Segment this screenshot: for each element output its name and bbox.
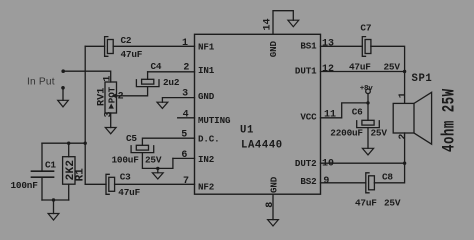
svg-text:7: 7 (183, 176, 189, 187)
ground pin8 (268, 220, 279, 226)
svg-text:47uF: 47uF (121, 49, 143, 60)
capacitor C1 (32, 143, 54, 200)
svg-text:2: 2 (183, 63, 189, 74)
ground pin14 (288, 20, 299, 27)
junction C5 gnd (156, 167, 159, 170)
wire pin13 BS1 (321, 45, 363, 47)
wire pin2 IN1 (148, 71, 195, 73)
node DUT2 rail (403, 162, 406, 165)
ground C6 (362, 148, 373, 155)
capacitor C6 (357, 120, 380, 127)
node bottom gnd (52, 198, 55, 201)
wire pin1 NF1 row (85, 45, 104, 47)
svg-text:+8v: +8v (360, 85, 374, 93)
svg-text:R1: R1 (74, 168, 86, 182)
svg-text:25V: 25V (145, 154, 162, 165)
svg-text:2: 2 (118, 91, 124, 102)
svg-text:47uF: 47uF (355, 198, 377, 209)
svg-text:VCC: VCC (300, 112, 317, 123)
svg-text:9: 9 (323, 176, 329, 187)
svg-text:POT: POT (106, 86, 117, 103)
svg-text:SP1: SP1 (412, 73, 433, 85)
svg-text:5: 5 (181, 130, 187, 141)
node input terminal (61, 69, 65, 73)
wire pin12 DUT1 (321, 71, 405, 73)
svg-text:NF2: NF2 (198, 182, 214, 193)
wire pin3 GND (162, 98, 194, 103)
capacitor C5 (131, 145, 154, 152)
wire C6 to ground (367, 128, 369, 149)
resistor R1 (63, 143, 75, 200)
svg-text:47uF: 47uF (118, 187, 140, 198)
svg-text:2: 2 (398, 134, 409, 140)
resistor RV1 potentiometer (105, 82, 117, 113)
svg-text:LA4440: LA4440 (241, 139, 283, 151)
svg-text:2u2: 2u2 (163, 77, 180, 88)
ground input (58, 100, 69, 107)
ground C1 R1 (48, 214, 59, 221)
capacitor C3 (106, 174, 115, 194)
svg-text:GND: GND (268, 41, 279, 58)
wire main NF vertical (84, 46, 86, 184)
svg-text:12: 12 (322, 64, 334, 75)
svg-text:U1: U1 (240, 124, 254, 136)
svg-text:2200uF: 2200uF (330, 128, 363, 139)
svg-text:11: 11 (324, 110, 336, 121)
svg-text:47uF: 47uF (349, 61, 371, 72)
svg-text:IN1: IN1 (198, 65, 215, 76)
svg-text:8: 8 (265, 202, 276, 208)
svg-text:C3: C3 (120, 171, 131, 182)
node NF vertical (84, 142, 87, 145)
svg-text:25V: 25V (384, 198, 401, 209)
svg-text:In Put: In Put (27, 77, 55, 88)
node +8v supply terminal (366, 89, 371, 94)
capacitor C8 (366, 173, 375, 193)
wire gnd stub (157, 168, 159, 172)
wire RV1 pin3 to ground (110, 113, 112, 128)
wire C1 R1 bottom (42, 199, 69, 201)
wire C1 R1 top node (42, 142, 85, 144)
wire C4 to wiper (117, 87, 148, 96)
ground RV1 (105, 128, 116, 134)
svg-text:C8: C8 (382, 172, 393, 183)
wire C5 to ground/pin6 net (142, 153, 173, 169)
svg-text:25V: 25V (371, 128, 388, 139)
node DUT1 rail (403, 70, 406, 73)
svg-text:3: 3 (182, 89, 188, 100)
svg-text:100nF: 100nF (11, 180, 39, 191)
svg-text:C2: C2 (121, 35, 132, 46)
svg-text:C5: C5 (126, 133, 137, 144)
capacitor C7 (362, 37, 371, 57)
node input ground terminal (61, 86, 65, 90)
op-amp U1 LA4440 IC body (195, 34, 321, 194)
wire pin6 IN2 (173, 157, 195, 159)
svg-text:C4: C4 (151, 61, 162, 72)
wire SP1 bottom lead (404, 133, 406, 163)
capacitor C4 (136, 79, 159, 86)
svg-text:D.C.: D.C. (198, 133, 220, 144)
wire pin9 BS2 (321, 182, 366, 184)
svg-text:C6: C6 (352, 107, 363, 118)
svg-text:IN2: IN2 (198, 154, 214, 165)
ground pin3 (157, 102, 168, 108)
svg-text:25V: 25V (384, 61, 401, 72)
wire pin7 NF2 left (85, 183, 106, 185)
wire pin14 GND top (273, 11, 293, 35)
svg-text:6: 6 (181, 150, 187, 161)
wire bottom gnd stub (53, 200, 55, 214)
svg-text:4ohm 25W: 4ohm 25W (439, 88, 460, 152)
svg-text:1: 1 (182, 38, 188, 49)
svg-text:BS1: BS1 (300, 41, 317, 52)
svg-text:1: 1 (103, 76, 114, 82)
wire C2 to pin1 (113, 45, 194, 47)
svg-text:13: 13 (322, 38, 334, 49)
svg-text:1: 1 (398, 92, 409, 98)
svg-text:DUT2: DUT2 (295, 158, 317, 169)
svg-text:C7: C7 (360, 23, 371, 34)
wire input gnd stub (62, 89, 64, 100)
wire pin2 down to C4 (147, 72, 149, 80)
wire pin11 VCC (321, 103, 369, 118)
node R1 top (67, 142, 70, 145)
svg-text:14: 14 (263, 18, 274, 30)
wire pin10 DUT2 (321, 162, 405, 164)
svg-text:DUT1: DUT1 (295, 66, 317, 77)
node VCC supply (366, 101, 369, 104)
svg-text:BS2: BS2 (300, 176, 316, 187)
wire pin5 D.C. (142, 138, 194, 145)
svg-text:100uF: 100uF (112, 154, 140, 165)
wire pin8 GND bottom (272, 194, 274, 219)
speaker SP1 (393, 92, 431, 144)
wire +8v to C6 (367, 94, 369, 121)
svg-text:C1: C1 (45, 159, 56, 170)
wire C3 to pin7 (115, 183, 195, 185)
svg-text:GND: GND (198, 91, 215, 102)
svg-text:MUTING: MUTING (198, 115, 231, 126)
capacitor C2 (105, 37, 114, 57)
svg-text:NF1: NF1 (198, 41, 215, 52)
ground C5 net (152, 173, 163, 179)
svg-text:4: 4 (183, 110, 189, 121)
wire C7 to right rail (371, 46, 405, 103)
svg-text:10: 10 (322, 158, 334, 169)
svg-text:GND: GND (269, 176, 280, 193)
wire rail to C8 (374, 163, 404, 183)
svg-text:3: 3 (104, 111, 115, 117)
wire pin4 MUTING stub (178, 117, 195, 119)
wire input to pot (63, 71, 110, 82)
